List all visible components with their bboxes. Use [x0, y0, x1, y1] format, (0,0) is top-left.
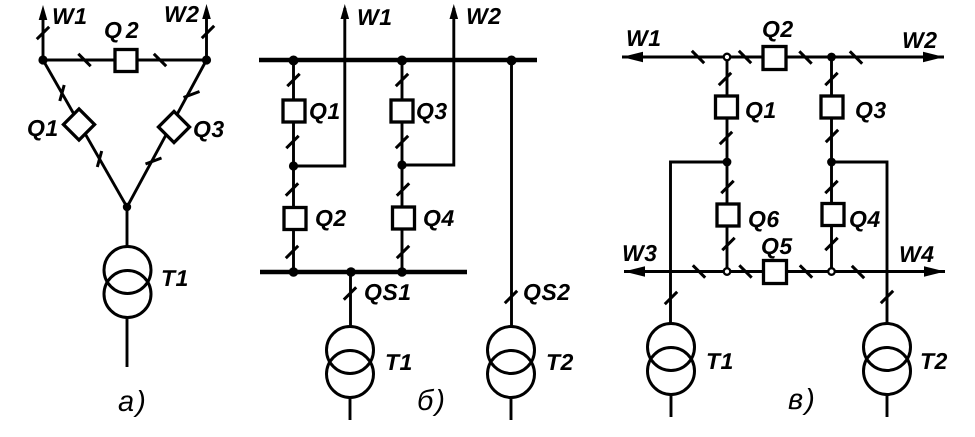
panel v: disconnector slash T2: [881, 291, 893, 303]
panel v: node Q1 tap on top line: [724, 54, 731, 61]
panel v: label Q1: [746, 102, 775, 123]
panel b: label b): [419, 389, 444, 416]
panel v: node Q3 tap on top line: [827, 53, 836, 62]
panel v: breaker Q1: [716, 96, 738, 118]
panel b: breaker Q1: [283, 100, 305, 122]
panel b: wire branch Q3 (bus to junction): [401, 60, 404, 165]
panel v: wire top ring line: [622, 56, 944, 59]
panel b: wire branch Q2 (junction to bus): [292, 166, 295, 272]
panel a: line W1 feeder wire with arrow: [42, 11, 45, 60]
panel b: wire branch Q4 (junction to bus): [401, 165, 404, 272]
panel v: label W1: [628, 30, 660, 46]
panel v: breaker Q2: [763, 47, 786, 70]
panel a: label Q2: [105, 22, 138, 43]
panel b: wire junction to W2 feeder: [402, 8, 454, 165]
panel b: disconnector QS2 slash: [505, 291, 517, 303]
panel v: transformer T1: [648, 324, 695, 371]
panel b: wire QS1 (bottom bus to transformer): [349, 272, 352, 326]
panel b: breaker Q2: [284, 208, 306, 230]
panel v: node junction right: [827, 158, 836, 167]
panel b: node branch Q3 on top bus: [397, 56, 407, 66]
panel a: label a): [119, 390, 144, 417]
panel b: label W1: [359, 9, 391, 25]
panel v: wire left bypass to transformer T1: [671, 162, 728, 324]
panel v: label W2: [904, 32, 937, 48]
panel a: wire below transformer T1: [126, 318, 129, 368]
panel v: node junction left: [723, 158, 732, 167]
panel a: breaker Q1: [63, 109, 94, 140]
panel v: wire branch Q4 (junction to bottom line): [830, 162, 833, 272]
panel b: line W2 arrow: [450, 4, 459, 19]
panel v: label Q5: [762, 238, 792, 259]
panel a: node top-left junction: [38, 55, 47, 64]
panel v: label T2: [922, 353, 948, 369]
panel b: node T2 tap on top bus: [507, 56, 517, 66]
panel b: node branch Q2 on bottom bus: [289, 267, 299, 277]
panel a: line W2 feeder wire with arrow: [205, 10, 208, 60]
panel v: wire bottom ring line: [624, 270, 945, 273]
panel v: line W2 arrow (right): [923, 52, 944, 62]
panel b: bus bottom: [260, 270, 467, 275]
panel b: node junction left: [289, 161, 298, 170]
panel b: disconnector QS1 slash: [344, 287, 356, 299]
panel b: wire below transformer T2: [510, 398, 513, 421]
panel v: wire branch Q3 (top line to junction): [830, 57, 833, 162]
panel v: disconnector slash T1: [665, 292, 677, 304]
panel b: bus top: [259, 58, 537, 63]
panel v: wire branch Q6 (junction to bottom line): [726, 162, 729, 272]
panel b: label T2: [548, 354, 574, 370]
panel a: wire right diagonal: [127, 60, 207, 207]
panel b: label Q1: [310, 103, 339, 124]
panel v: breaker Q3: [821, 96, 843, 118]
panel b: transformer T1: [327, 327, 374, 374]
panel v: node Q4 tap on bottom line: [828, 268, 835, 275]
panel v: label v): [789, 388, 814, 415]
panel b: node branch Q1 on top bus: [289, 56, 299, 66]
panel b: label Q3: [417, 103, 447, 124]
panel v: label Q2: [763, 21, 793, 42]
panel a: node top-right junction: [202, 55, 211, 64]
panel v: line W3 arrow (left): [624, 266, 645, 276]
panel b: wire junction to W1 feeder: [294, 8, 345, 166]
panel a: wire left diagonal: [43, 60, 127, 207]
panel a: label Q1: [28, 120, 57, 141]
panel b: line W1 arrow: [341, 4, 350, 19]
panel v: breaker Q6: [717, 204, 739, 226]
panel b: transformer T2: [488, 327, 535, 374]
panel v: label Q3: [856, 102, 886, 123]
panel b: node QS1 tap on bottom bus: [346, 267, 356, 277]
panel b: label QS2: [524, 284, 570, 305]
panel b: wire below transformer T1: [349, 398, 352, 421]
panel a: label Q3: [194, 121, 224, 142]
panel b: wire T2 feeder (top bus to transformer): [510, 60, 513, 326]
panel b: breaker Q3: [391, 100, 413, 122]
panel a: breaker Q3: [158, 111, 189, 142]
panel v: label T1: [708, 353, 733, 369]
panel a: wire top horizontal: [43, 59, 207, 62]
panel a: label W2: [166, 6, 199, 22]
panel b: label W2: [468, 8, 501, 24]
panel v: node Q6 tap on bottom line: [724, 268, 731, 275]
panel v: wire right bypass to transformer T2: [832, 162, 888, 324]
panel v: label W3: [624, 245, 657, 261]
panel v: line W4 arrow (right): [924, 266, 945, 276]
panel a: label W1: [54, 8, 86, 24]
panel v: label Q4: [850, 211, 880, 232]
panel a: wire vertex to transformer: [126, 207, 129, 248]
panel v: breaker Q4: [822, 204, 844, 226]
panel v: wire below transformer T2: [886, 395, 889, 418]
panel b: node junction middle: [397, 160, 406, 169]
panel v: label Q6: [749, 211, 779, 232]
panel b: label T1: [387, 354, 412, 370]
panel v: breaker Q5: [764, 261, 787, 284]
panel a: breaker Q2: [115, 50, 137, 72]
panel b: label Q4: [424, 210, 454, 231]
panel v: line W1 arrow (left): [622, 52, 643, 62]
panel a: node bottom vertex: [123, 203, 131, 211]
panel b: label Q2: [316, 210, 346, 231]
panel v: wire branch Q1 (top line to junction): [726, 57, 729, 162]
panel b: wire branch Q1 (bus to junction): [292, 60, 295, 166]
panel v: label W4: [901, 246, 934, 262]
panel b: breaker Q4: [393, 207, 415, 229]
panel v: wire below transformer T1: [670, 395, 673, 418]
panel a: label T1: [163, 270, 188, 286]
panel v: transformer T2: [864, 324, 911, 371]
panel b: label QS1: [365, 284, 410, 305]
panel a: transformer T1: [104, 247, 151, 294]
panel b: node branch Q4 on bottom bus: [397, 267, 407, 277]
